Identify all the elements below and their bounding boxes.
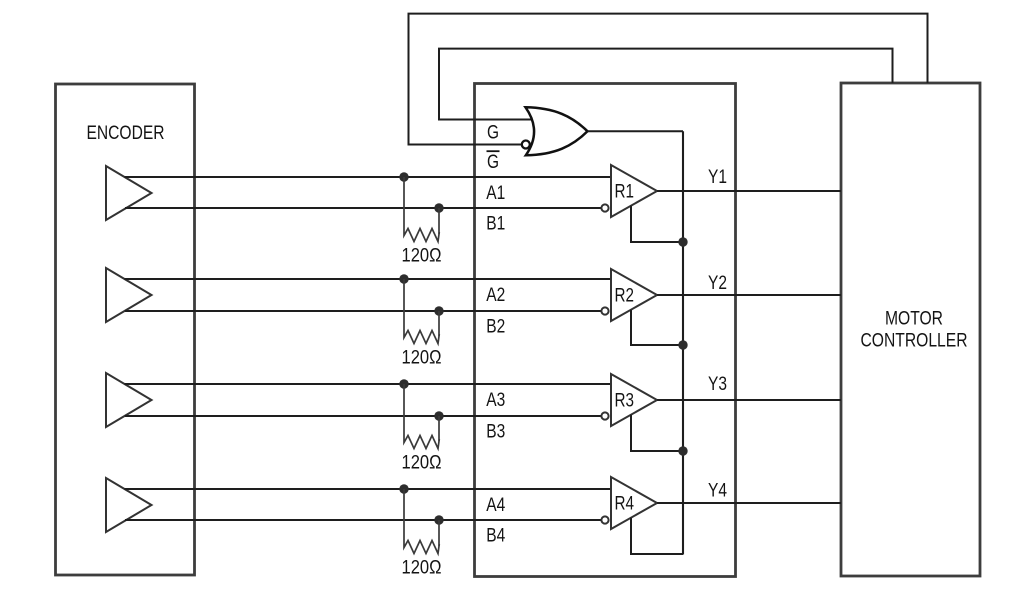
svg-text:Y1: Y1 <box>708 167 727 188</box>
wire: vertical enable bus <box>682 131 684 554</box>
node: junction dot on B3 at termination <box>434 411 443 420</box>
resistor RT2 termination 120 ohm <box>404 279 439 344</box>
wire: A2 differential line <box>125 278 612 280</box>
svg-text:B4: B4 <box>486 526 505 547</box>
encoder driver triangle channel 1 <box>106 166 152 220</box>
node: junction dot enable bus row 3 <box>678 446 687 455</box>
svg-text:A1: A1 <box>486 183 505 204</box>
svg-text:120Ω: 120Ω <box>402 453 442 474</box>
wire: output Y4 to motor controller <box>657 502 841 504</box>
wire: A4 differential line <box>125 488 612 490</box>
encoder driver triangle channel 4 <box>106 478 152 532</box>
svg-text:R2: R2 <box>615 285 635 306</box>
svg-text:B3: B3 <box>486 422 505 443</box>
svg-text:R4: R4 <box>615 493 635 514</box>
wire: enable pin of R1 to enable bus <box>631 206 683 242</box>
svg-text:B2: B2 <box>486 317 505 338</box>
node: junction dot enable bus row 1 <box>678 237 687 246</box>
svg-text:R1: R1 <box>615 181 635 202</box>
motor controller block box <box>841 83 980 576</box>
G-bar net label <box>487 151 500 173</box>
receiver R2 triangle <box>611 269 657 321</box>
wire: output Y3 to motor controller <box>657 399 841 401</box>
wire: B4 differential line <box>125 519 602 521</box>
inverting bubble on receiver R4 B input <box>601 516 608 523</box>
node: junction dot enable bus row 2 <box>678 340 687 349</box>
svg-text:120Ω: 120Ω <box>402 246 442 267</box>
svg-text:ENCODER: ENCODER <box>87 123 165 144</box>
wire: A3 differential line <box>125 383 612 385</box>
encoder driver triangle channel 3 <box>106 373 152 427</box>
svg-text:A4: A4 <box>486 495 505 516</box>
svg-text:R3: R3 <box>615 390 635 411</box>
wire: outer enable feedback from motor controller to G-bar input <box>409 14 928 145</box>
node: junction dot on A4 at termination <box>399 484 408 493</box>
receiver R4 triangle <box>611 477 657 529</box>
wire: B3 differential line <box>125 415 602 417</box>
node: junction dot on A2 at termination <box>399 274 408 283</box>
encoder block box <box>56 84 195 575</box>
svg-text:B1: B1 <box>486 214 505 235</box>
wire: output Y2 to motor controller <box>657 294 841 296</box>
wire: B2 stub to termination resistor <box>438 311 440 336</box>
wire: B4 stub to termination resistor <box>438 520 440 546</box>
svg-text:Y3: Y3 <box>708 374 727 395</box>
wire: B1 stub to termination resistor <box>438 208 440 234</box>
wire: inner enable feedback from motor controller to G input <box>439 49 893 120</box>
wire: B1 differential line <box>125 207 602 209</box>
encoder driver triangle channel 2 <box>106 268 152 322</box>
node: junction dot on B2 at termination <box>434 306 443 315</box>
op-amp style enable OR gate U1 body <box>526 107 588 155</box>
wire: A1 differential line <box>125 176 612 178</box>
wire: enable pin of R2 to enable bus <box>631 310 683 345</box>
svg-text:G: G <box>487 123 499 144</box>
receiver R3 triangle <box>611 374 657 426</box>
resistor RT4 termination 120 ohm <box>404 489 439 554</box>
resistor RT1 termination 120 ohm <box>404 177 439 242</box>
wire: enable pin of R3 to enable bus <box>631 415 683 451</box>
receiver R1 triangle <box>611 165 657 217</box>
node: junction dot on B1 at termination <box>434 203 443 212</box>
inverting bubble on receiver R3 B input <box>601 412 608 419</box>
svg-text:A2: A2 <box>486 285 505 306</box>
wire: output Y1 to motor controller <box>657 190 841 192</box>
node: junction dot on B4 at termination <box>434 515 443 524</box>
svg-text:120Ω: 120Ω <box>402 558 442 579</box>
node: junction dot on A1 at termination <box>399 172 408 181</box>
node: junction dot on A3 at termination <box>399 379 408 388</box>
wire: gate output to enable bus <box>588 130 684 132</box>
inverting bubble on receiver R2 B input <box>601 307 608 314</box>
wire: B2 differential line <box>125 310 602 312</box>
svg-text:CONTROLLER: CONTROLLER <box>861 331 968 352</box>
svg-text:120Ω: 120Ω <box>402 348 442 369</box>
resistor RT3 termination 120 ohm <box>404 384 439 449</box>
svg-text:MOTOR: MOTOR <box>885 309 943 330</box>
svg-text:Y4: Y4 <box>708 481 727 502</box>
inverting bubble on receiver R1 B input <box>601 204 608 211</box>
svg-text:G: G <box>487 152 499 173</box>
svg-text:A3: A3 <box>486 390 505 411</box>
inverting bubble on G-bar gate input <box>522 141 530 149</box>
svg-text:Y2: Y2 <box>708 273 727 294</box>
line receiver block box <box>475 84 736 577</box>
MOTOR CONTROLLER label <box>861 309 968 352</box>
wire: enable pin of R4 to enable bus <box>631 518 683 554</box>
wire: B3 stub to termination resistor <box>438 416 440 441</box>
